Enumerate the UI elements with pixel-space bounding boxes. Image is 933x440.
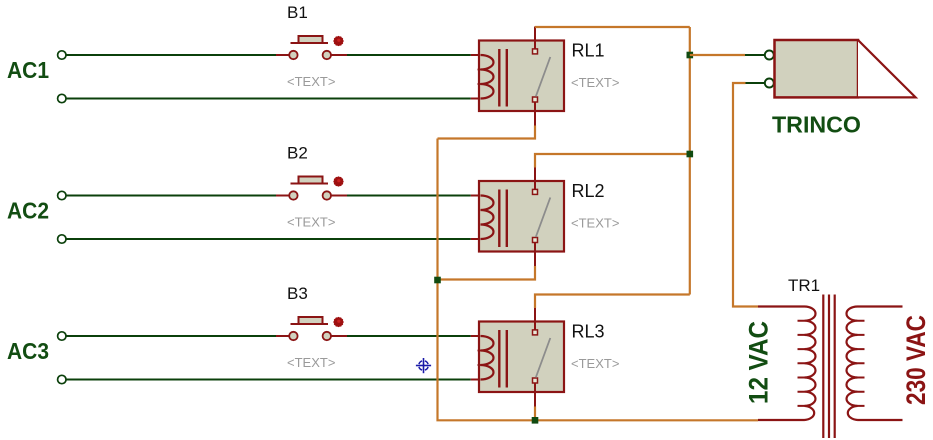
latch TRINCO — [765, 40, 916, 97]
label B3 — [287, 284, 308, 303]
wire AC2 top to B2 — [66, 195, 276, 197]
cursor crosshair — [416, 358, 431, 373]
relay RL3 — [471, 308, 564, 407]
wire RL2 top to right bus — [535, 154, 690, 168]
terminal AC1 pin 1 — [58, 51, 66, 59]
label B2 — [287, 144, 308, 163]
wire right bus vertical — [689, 27, 691, 295]
label B1 TEXT — [287, 74, 335, 89]
node AC1 label — [7, 57, 49, 83]
label B1 — [287, 3, 308, 22]
wire RL1 top to right bus — [535, 26, 690, 28]
wire left bus vertical — [438, 139, 759, 421]
button B2 — [276, 176, 347, 199]
label B3 TEXT — [287, 355, 335, 370]
relay RL2 — [471, 168, 564, 267]
svg-text:RL2: RL2 — [572, 181, 605, 201]
wire AC2 bottom to RL2 coil — [66, 238, 471, 240]
relay RL1 — [471, 27, 564, 126]
label RL1 — [572, 41, 605, 61]
wire AC3 bottom to RL3 coil — [66, 379, 471, 381]
svg-text:<TEXT>: <TEXT> — [571, 216, 619, 231]
wire RL2 bottom to left bus — [438, 266, 536, 280]
svg-text:<TEXT>: <TEXT> — [287, 215, 335, 230]
wire AC1 bottom to RL1 coil — [66, 98, 471, 100]
terminal AC3 pin 1 — [58, 332, 66, 340]
svg-text:RL3: RL3 — [572, 322, 605, 342]
label RL3 TEXT — [571, 356, 619, 371]
svg-text:RL1: RL1 — [572, 41, 605, 61]
wire B1 to RL1 — [347, 54, 471, 56]
svg-text:TR1: TR1 — [788, 276, 820, 295]
svg-text:TRINCO: TRINCO — [772, 112, 861, 138]
svg-text:B3: B3 — [287, 284, 308, 303]
svg-text:<TEXT>: <TEXT> — [287, 355, 335, 370]
label 12 VAC — [744, 321, 774, 404]
label 230 VAC — [901, 315, 931, 405]
svg-text:B2: B2 — [287, 144, 308, 163]
wire right bus to TRINCO top — [690, 54, 765, 56]
node AC2 label — [7, 198, 49, 224]
wire RL3 top to right bus — [535, 295, 690, 309]
button B1 — [276, 36, 347, 59]
label RL1 TEXT — [571, 75, 619, 90]
junction bottom bus RL3 — [532, 417, 539, 424]
terminal AC2 pin 1 — [58, 191, 66, 199]
svg-text:230 VAC: 230 VAC — [901, 315, 931, 405]
label RL2 TEXT — [571, 216, 619, 231]
label RL2 — [572, 181, 605, 201]
label TR1 — [788, 276, 820, 295]
wire AC1 top to B1 — [66, 54, 276, 56]
label B2 TEXT — [287, 215, 335, 230]
wire RL3 bottom to bottom bus — [534, 407, 536, 421]
svg-text:AC2: AC2 — [7, 198, 49, 224]
svg-text:<TEXT>: <TEXT> — [571, 75, 619, 90]
svg-text:B1: B1 — [287, 3, 308, 22]
terminal AC3 pin 2 — [58, 375, 66, 383]
transformer TR1 — [758, 295, 903, 439]
svg-text:<TEXT>: <TEXT> — [571, 356, 619, 371]
label RL3 — [572, 322, 605, 342]
label TRINCO — [772, 112, 861, 138]
button B3 — [276, 317, 347, 340]
terminal AC2 pin 2 — [58, 235, 66, 243]
junction left bus RL2 — [434, 277, 441, 284]
svg-text:AC1: AC1 — [7, 57, 49, 83]
junction right bus RL2 — [687, 151, 694, 158]
wire B2 to RL2 — [347, 195, 471, 197]
wire TRINCO bottom to TR1 primary top — [733, 83, 765, 307]
terminal AC1 pin 2 — [58, 94, 66, 102]
svg-text:<TEXT>: <TEXT> — [287, 74, 335, 89]
wire AC3 top to B3 — [66, 335, 276, 337]
wire RL1 bottom to left bus — [438, 126, 536, 139]
svg-text:AC3: AC3 — [7, 338, 49, 364]
wire B3 to RL3 — [347, 335, 471, 337]
node AC3 label — [7, 338, 49, 364]
junction right bus TRINCO — [687, 52, 694, 59]
svg-text:12 VAC: 12 VAC — [744, 321, 774, 404]
